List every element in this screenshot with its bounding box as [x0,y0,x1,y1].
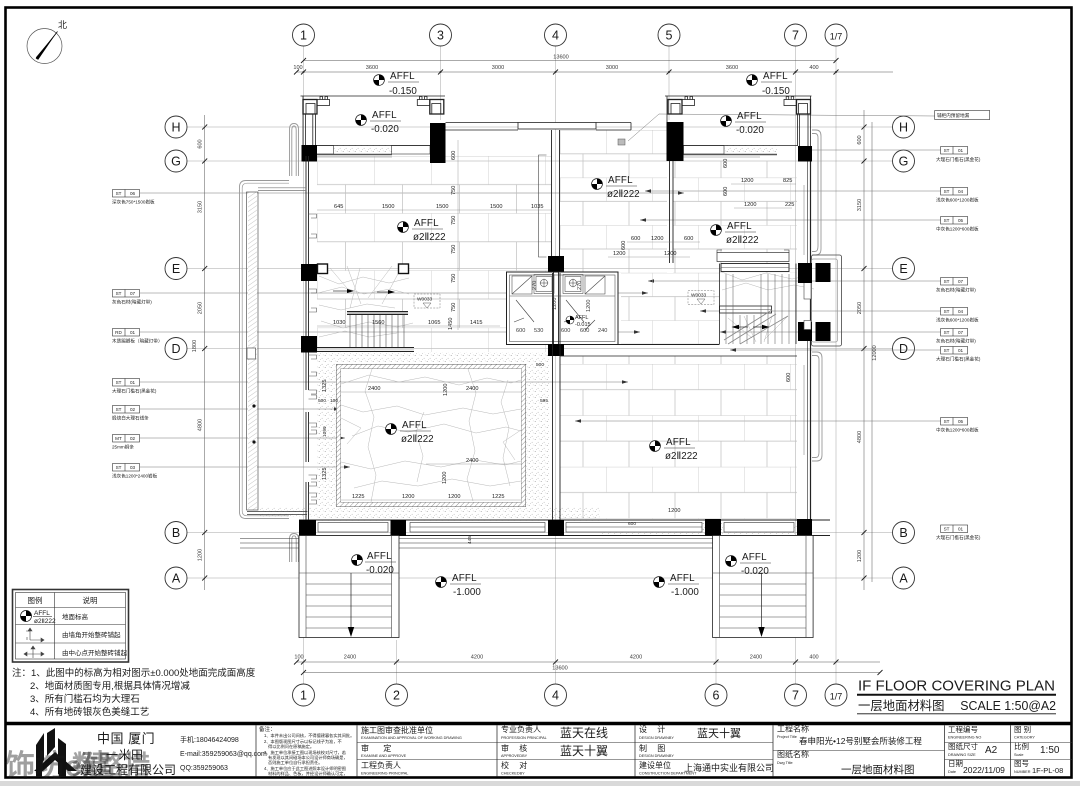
svg-text:ST: ST [944,419,950,424]
AFFL -0.020 left porch [356,110,401,135]
svg-text:1500: 1500 [436,204,448,210]
svg-text:600: 600 [561,328,570,334]
svg-text:1200: 1200 [668,508,680,514]
columns at right bay D row [798,322,812,341]
svg-text:01: 01 [958,527,964,532]
svg-text:建设工程有限公司: 建设工程有限公司 [80,762,176,777]
AFFL -1.000 left terrace [436,573,482,598]
svg-text:600: 600 [628,521,636,527]
svg-text:RD: RD [115,330,122,335]
right top room left wall [670,161,674,263]
svg-text:煅烧白大理石线条: 煅烧白大理石线条 [112,415,149,422]
material tag RD01 left [112,329,640,345]
svg-text:中国 厦门: 中国 厦门 [97,731,155,746]
svg-text:13600: 13600 [552,666,568,672]
svg-text:05: 05 [958,218,964,223]
svg-text:AFFL: AFFL [390,71,415,82]
svg-text:CHECKEDBY: CHECKEDBY [501,772,525,776]
svg-text:01: 01 [130,330,136,335]
svg-text:AFFL: AFFL [452,573,477,584]
svg-text:一层地面材料图: 一层地面材料图 [841,763,915,776]
fixtures row [512,275,605,295]
middle landing edge bar [720,306,772,313]
svg-text:AFFL: AFFL [367,551,392,562]
AFFL -0.150 top-left [374,71,419,97]
column G3 (tall) [430,123,446,163]
svg-text:01: 01 [958,348,964,353]
floor tiles middle room [560,130,667,273]
grid row B [187,532,893,534]
svg-text:专业负责人: 专业负责人 [501,724,541,734]
svg-text:W0033: W0033 [417,297,433,303]
bench above stair [717,253,789,262]
svg-text:2400: 2400 [750,655,762,661]
svg-text:ST: ST [944,218,950,223]
svg-text:01: 01 [958,148,964,153]
svg-text:图 别: 图 别 [1014,725,1031,734]
svg-text:辅柜内预留地漏: 辅柜内预留地漏 [937,112,970,119]
material tag ST05b right [575,418,979,434]
big room dim [628,373,792,527]
svg-text:ST: ST [944,279,950,284]
AFFL -0.020 right porch [721,111,766,136]
svg-text:蓝天十翼: 蓝天十翼 [560,744,608,758]
svg-text:1225: 1225 [492,494,504,500]
svg-text:大理石门槛石(黑金花): 大理石门槛石(黑金花) [936,534,981,541]
svg-text:AFFL: AFFL [402,420,427,431]
material tag ST01c right (B row) [936,525,981,541]
grid bubbles left [165,116,187,589]
svg-text:3000: 3000 [606,65,618,71]
svg-text:600: 600 [198,139,204,148]
right bay window (E-D) [812,255,842,346]
W0033 window tag left [414,294,440,308]
svg-text:AFFL: AFFL [727,221,752,232]
grey strip bottom edge [0,781,1080,786]
svg-text:4200: 4200 [630,655,642,661]
svg-text:得以比例问在原稿施定。: 得以比例问在原稿施定。 [268,743,314,750]
svg-text:1030: 1030 [333,320,345,326]
svg-text:3600: 3600 [366,65,378,71]
svg-text:DESIGN DRAWNBY: DESIGN DRAWNBY [639,754,674,758]
svg-text:Date: Date [948,770,956,774]
treads [726,274,789,344]
left exterior U trim bottom [290,534,299,563]
material tag ST03 left [112,464,350,480]
left outdoor stair [299,536,399,638]
left exterior U trim [240,124,307,519]
svg-text:750: 750 [451,186,457,195]
svg-text:材料的样品、色板，并经设计师确认可定，: 材料的样品、色板，并经设计师确认可定， [268,770,348,777]
svg-text:ST: ST [944,330,950,335]
svg-text:ST: ST [944,348,950,353]
left interior stair [317,264,414,352]
svg-text:7: 7 [792,689,799,703]
svg-text:400: 400 [809,65,818,71]
svg-text:5: 5 [666,29,673,43]
AFFL 2/222 left room [398,218,446,243]
W0033 window tag right [688,291,714,305]
svg-text:建设单位: 建设单位 [639,760,671,770]
svg-text:1500: 1500 [382,204,394,210]
svg-text:600: 600 [451,151,457,160]
svg-text:图纸尺寸: 图纸尺寸 [948,741,978,751]
stipple band around courtyard [260,353,800,535]
courtyard marble veins [341,369,521,502]
svg-text:蓝天在线: 蓝天在线 [560,726,608,740]
svg-text:03: 03 [130,465,136,470]
svg-text:05: 05 [958,419,964,424]
svg-text:12000: 12000 [872,345,878,361]
svg-text:4、所有地砖银灰色美缝工艺: 4、所有地砖银灰色美缝工艺 [30,706,149,718]
svg-text:MT: MT [115,436,122,441]
svg-text:240: 240 [598,328,607,334]
outer walls [507,272,619,345]
svg-text:蓝天十翼: 蓝天十翼 [697,726,741,740]
direction arrows [333,290,347,292]
bottom dimension chain segments [294,655,880,663]
svg-text:1200: 1200 [402,494,414,500]
big room left wall [553,273,561,520]
svg-text:H: H [171,121,180,135]
svg-text:D: D [899,342,908,356]
floor tiles corridor beside bath [621,273,719,344]
svg-text:1325: 1325 [322,468,328,480]
svg-text:1200: 1200 [586,300,592,312]
bottom bar [317,348,414,352]
svg-text:600: 600 [631,236,640,242]
svg-text:1035: 1035 [531,204,543,210]
company text [80,731,267,777]
svg-text:木质踢脚板（暗藏灯带）: 木质踢脚板（暗藏灯带） [112,338,163,345]
right exterior wall [804,162,811,520]
svg-text:EXAMINE AND APPROVE: EXAMINE AND APPROVE [361,754,407,758]
svg-text:2050: 2050 [198,302,204,314]
top landing edge bar [721,264,789,272]
svg-text:2400: 2400 [466,386,478,392]
AFFL 2/222 right room [711,221,759,246]
bottom wall B row [299,520,830,536]
treads [350,315,404,347]
svg-text:深灰色750*1500岩板: 深灰色750*1500岩板 [112,199,155,206]
svg-text:审 核: 审 核 [501,743,531,753]
svg-text:工程编号: 工程编号 [948,724,978,734]
AFFL -0.020 left terrace [352,551,396,576]
svg-text:AFFL: AFFL [666,437,691,448]
grid bubbles right [893,116,915,589]
svg-text:600: 600 [723,187,729,196]
svg-text:W0033: W0033 [691,293,707,299]
svg-text:-0.020: -0.020 [741,566,769,577]
svg-text:750: 750 [451,216,457,225]
notes [12,667,256,718]
columns B row [299,520,316,536]
svg-text:2400: 2400 [344,655,356,661]
GRID LINES [187,46,893,684]
svg-text:ø2Ⅱ222: ø2Ⅱ222 [665,451,698,462]
svg-text:PROFESSION PRINCIPAL: PROFESSION PRINCIPAL [501,736,547,740]
svg-text:6: 6 [713,689,720,703]
svg-text:1225: 1225 [352,494,364,500]
approval cells [361,724,1063,777]
material tag ST06 left [112,190,684,206]
svg-text:750: 750 [451,274,457,283]
svg-text:02: 02 [130,407,136,412]
svg-text:A2: A2 [985,745,998,756]
svg-text:225: 225 [785,202,794,208]
gate post top-left of right porch [668,97,695,115]
svg-text:1/7: 1/7 [830,692,843,702]
grid row H [187,126,893,128]
material tag ST01 left [112,379,628,395]
svg-text:比例: 比例 [1014,741,1029,751]
svg-text:大理石门槛石(黑金花): 大理石门槛石(黑金花) [936,156,981,163]
bottom overall dimension [304,666,881,673]
svg-text:否则施工单位自行承担责任。: 否则施工单位自行承担责任。 [268,759,322,766]
bathroom core [507,272,619,345]
legend center symbol [24,646,44,658]
svg-text:EXAMINATION AND APPROVAL OF WO: EXAMINATION AND APPROVAL OF WORKING DRAW… [361,736,462,740]
svg-text:600: 600 [786,373,792,382]
left exterior building wall [306,156,309,520]
svg-text:1415: 1415 [470,320,482,326]
svg-text:审 定: 审 定 [361,743,397,753]
svg-text:春申阳光•12号别墅会所装修工程: 春申阳光•12号别墅会所装修工程 [799,736,922,746]
grid row A [187,577,893,579]
landing edge bar [347,312,408,315]
svg-text:13600: 13600 [553,55,569,61]
svg-text:2、地面材质图专用,根据具体情况增减: 2、地面材质图专用,根据具体情况增减 [30,680,190,692]
svg-text:日期: 日期 [948,759,963,768]
svg-text:2400: 2400 [466,458,478,464]
svg-text:530: 530 [534,328,543,334]
right tag drain note [618,111,990,146]
svg-text:1200: 1200 [741,178,753,184]
svg-text:ø2Ⅱ222: ø2Ⅱ222 [607,189,640,200]
svg-text:工程名称: 工程名称 [777,724,809,734]
svg-text:1200: 1200 [857,550,863,562]
material tag ST01b right [730,347,981,363]
svg-text:1F-PL-08: 1F-PL-08 [1032,766,1063,775]
svg-text:-0.020: -0.020 [371,124,399,135]
svg-text:施工图审查批准单位: 施工图审查批准单位 [361,725,433,735]
material tag ST01 right (G row) [812,147,981,164]
svg-text:3600: 3600 [726,65,738,71]
svg-text:AFFL: AFFL [737,111,762,122]
company logo [34,728,77,777]
svg-text:ø2Ⅱ222: ø2Ⅱ222 [401,434,434,445]
svg-text:4: 4 [552,689,559,703]
svg-text:1200: 1200 [198,549,204,561]
svg-text:25mm铜条: 25mm铜条 [112,444,134,451]
svg-text:400: 400 [809,655,818,661]
svg-text:大理石门槛石(黑金花): 大理石门槛石(黑金花) [936,356,981,363]
svg-text:825: 825 [783,178,792,184]
svg-text:大理石门槛石(黑金花): 大理石门槛石(黑金花) [112,388,157,395]
svg-text:1: 1 [300,689,307,703]
svg-text:ø2Ⅱ222: ø2Ⅱ222 [413,232,446,243]
svg-text:灰色石材(暗藏灯带): 灰色石材(暗藏灯带) [112,299,152,306]
svg-text:500: 500 [318,398,326,404]
grid row E [187,268,893,270]
svg-text:ST: ST [944,189,950,194]
svg-text:1200: 1200 [448,494,460,500]
AFFL -1.000 right terrace [654,573,700,598]
svg-text:NUMBER: NUMBER [1014,770,1031,774]
svg-text:500: 500 [536,362,544,368]
svg-text:G: G [171,155,181,169]
svg-text:7: 7 [792,29,799,43]
svg-text:E-mail:359259063@qq.com: E-mail:359259063@qq.com [180,751,267,758]
svg-text:750: 750 [451,245,457,254]
svg-text:1: 1 [300,29,307,43]
material tag ST04b right [700,308,979,324]
svg-text:600: 600 [621,241,627,250]
svg-text:APPROVEDBY: APPROVEDBY [501,754,528,758]
svg-text:图号: 图号 [1014,759,1029,768]
door swing diagonals [514,300,595,330]
vertical separators [256,725,1011,776]
svg-text:600: 600 [857,135,863,144]
svg-text:ST: ST [116,380,122,385]
svg-text:由墙角开始整砖铺起: 由墙角开始整砖铺起 [62,630,121,639]
grid line 3 [440,46,442,120]
column G5 (tall) [667,122,684,161]
svg-text:4800: 4800 [198,419,204,431]
svg-text:1200: 1200 [744,202,756,208]
svg-text:IF FLOOR COVERING PLAN: IF FLOOR COVERING PLAN [858,679,1055,695]
svg-text:750: 750 [451,303,457,312]
courtyard hatched border band [337,365,526,507]
svg-text:AFFL: AFFL [742,552,767,563]
material tag ST02 left [112,406,340,422]
svg-text:ø2Ⅱ222: ø2Ⅱ222 [34,618,56,625]
svg-text:灰色石材(暗藏灯带): 灰色石材(暗藏灯带) [936,287,976,294]
svg-text:2022/11/09: 2022/11/09 [963,765,1005,775]
grid line 1 [303,46,305,684]
middle room dims [723,159,796,208]
svg-text:04: 04 [958,189,964,194]
svg-text:D: D [171,342,180,356]
porch threshold dotted strip right [724,146,777,155]
svg-text:工程负责人: 工程负责人 [361,760,401,770]
svg-text:H: H [899,121,908,135]
remarks cell [259,725,354,777]
svg-text:3: 3 [437,29,444,43]
svg-text:由中心点开始整砖铺起: 由中心点开始整砖铺起 [62,648,128,657]
svg-text:645: 645 [334,204,343,210]
marble veins stair landings [318,266,814,342]
svg-text:AFFL: AFFL [608,175,633,186]
columns at right bay E row [798,263,812,282]
tile origin squares [318,264,328,274]
svg-text:ST: ST [116,291,122,296]
svg-text:1200: 1200 [664,251,676,257]
porch threshold dotted strip left [334,146,392,155]
svg-text:2050: 2050 [857,302,863,314]
AFFL -0.150 top-right [747,71,792,97]
left vertical dimension chain [192,115,205,590]
top dimension chain overall [304,55,837,61]
top middle wall G3-G4 [446,123,632,131]
svg-text:一层地面材料图 SCALE 1:50@A2: 一层地面材料图 SCALE 1:50@A2 [858,699,1056,713]
svg-text:E: E [172,262,180,276]
north arrow [27,20,67,64]
small AFFL [566,315,591,328]
material tag ST05 right [640,217,979,233]
svg-text:02: 02 [130,436,136,441]
svg-text:2: 2 [393,689,400,703]
svg-text:-0.020: -0.020 [736,125,764,136]
svg-text:07: 07 [130,291,136,296]
svg-text:ENGINEERING NO: ENGINEERING NO [948,736,981,740]
svg-text:1325: 1325 [322,380,328,392]
svg-text:1560: 1560 [372,320,384,326]
right room dims [608,236,700,257]
svg-text:-0.020: -0.020 [366,565,394,576]
legend corner symbol [26,628,44,642]
svg-text:Scale: Scale [1014,753,1024,757]
svg-text:600: 600 [684,236,693,242]
svg-text:说明: 说明 [83,595,98,605]
svg-text:B: B [172,526,180,540]
right bay trim1 (G-E) [812,130,821,255]
svg-text:AFFL: AFFL [414,218,439,229]
top-left porch walls [301,96,446,145]
AFFL 2/222 middle room [592,175,640,200]
svg-text:AFFL: AFFL [372,110,397,121]
svg-text:4200: 4200 [471,655,483,661]
gate post top-left of left porch [303,97,330,115]
dimension ticks top [294,58,839,75]
svg-text:北: 北 [58,20,67,30]
svg-text:ST: ST [116,407,122,412]
svg-text:04: 04 [958,309,964,314]
svg-text:ENGINEERING PRINCIPAL: ENGINEERING PRINCIPAL [361,772,408,776]
svg-text:QQ:359259063: QQ:359259063 [180,765,228,772]
grid row G [187,160,893,162]
svg-text:浅灰色600*1200岩板: 浅灰色600*1200岩板 [936,197,979,204]
columns at stair G7 [798,266,812,284]
svg-text:DESIGN DRAWNBY: DESIGN DRAWNBY [639,736,674,740]
grid line 2 [396,640,398,684]
svg-text:3150: 3150 [198,201,204,213]
svg-text:浅灰色1200*2400岩板: 浅灰色1200*2400岩板 [112,473,158,480]
svg-text:备注：: 备注： [259,725,276,733]
grid bubbles bottom [293,684,848,706]
left room dims [317,140,551,330]
svg-text:06: 06 [130,191,136,196]
svg-text:ST: ST [944,527,950,532]
svg-text:600: 600 [723,159,729,168]
column G7xG [798,146,812,162]
door frame bracket left of T wall [539,155,547,257]
svg-text:制 图: 制 图 [639,743,669,753]
grid line 7 [795,46,797,684]
svg-text:AFFL: AFFL [670,573,695,584]
wall above big room (bath/stair band bottom) [507,345,798,357]
svg-text:-1.000: -1.000 [453,587,481,598]
svg-text:中灰色1200*600岩板: 中灰色1200*600岩板 [936,226,979,233]
svg-text:3、所有门槛石均为大理石: 3、所有门槛石均为大理石 [30,693,140,705]
svg-text:Dwg Title: Dwg Title [777,761,793,765]
svg-text:上海通中实业有限公司: 上海通中实业有限公司 [684,762,774,773]
floor tiles right top room [673,161,797,273]
svg-text:270: 270 [532,281,538,290]
svg-text:地面标高: 地面标高 [62,612,89,621]
svg-text:270: 270 [577,281,583,290]
garden wall hatched strip [247,192,259,510]
